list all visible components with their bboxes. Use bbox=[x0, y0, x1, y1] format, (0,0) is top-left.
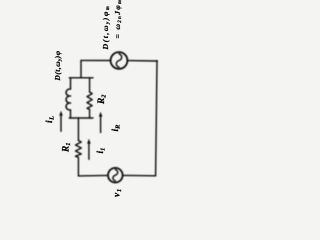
wire: stub from R1 up to parallel pair bottom bar bbox=[77, 118, 79, 141]
svg-text:D(t,ωy)φm: D(t,ωy)φm bbox=[101, 5, 111, 51]
voltage source v1 (circle) bbox=[108, 168, 123, 183]
svg-text:D(t,ωy)φ: D(t,ωy)φ bbox=[53, 50, 63, 81]
sine symbol inside v1 bbox=[113, 170, 118, 181]
parallel pair top bar bbox=[69, 77, 93, 79]
wire: top rail right segment bbox=[127, 60, 157, 62]
resistor R1 zigzag bbox=[76, 141, 82, 158]
inductor L bottom lead bbox=[70, 110, 72, 118]
parallel pair bottom bar bbox=[69, 117, 93, 119]
wire: bottom rail left segment bbox=[78, 174, 108, 177]
current arrow i1 bbox=[88, 142, 90, 159]
current arrow iL bbox=[60, 114, 62, 131]
resistor R2 right branch: top lead bbox=[89, 78, 91, 92]
wire: bottom stub of R1 bbox=[77, 158, 79, 176]
inductor L coil loops bbox=[66, 89, 70, 110]
wire: right rail bbox=[156, 61, 157, 176]
resistor R2 zigzag bbox=[87, 92, 92, 110]
current arrow iR bbox=[100, 115, 102, 133]
voltage source U1 (dependent source, circle) bbox=[111, 52, 128, 69]
wire: bottom rail right segment bbox=[123, 174, 156, 176]
resistor R2 bottom lead bbox=[89, 110, 91, 119]
wire: top stub from parallel pair to top rail bbox=[80, 60, 82, 77]
wire: top rail left segment bbox=[81, 59, 111, 61]
sine symbol inside U1 bbox=[116, 54, 121, 67]
junction dot at top-right corner bbox=[156, 60, 158, 62]
inductor L left branch: top lead bbox=[70, 78, 72, 89]
